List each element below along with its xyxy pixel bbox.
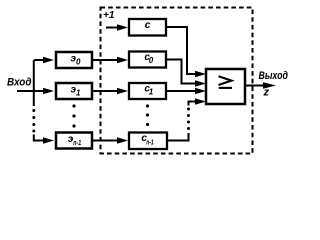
wire: input bus vertical (upper part) bbox=[33, 60, 35, 106]
wire: э1 output to c1 bbox=[92, 90, 118, 92]
wire: +1 into c bbox=[106, 27, 118, 29]
bus ellipsis dots bbox=[32, 109, 35, 133]
OR gate U1 (disjunctor) bbox=[206, 69, 245, 104]
delay element э1 bbox=[56, 83, 92, 99]
arrowhead into c0 bbox=[117, 57, 128, 63]
svg-text:0: 0 bbox=[76, 58, 81, 67]
ellipsis between э1 and эn-1 bbox=[72, 104, 75, 127]
svg-text:c: c bbox=[145, 20, 151, 31]
arrowhead output bbox=[263, 82, 276, 89]
svg-text:0: 0 bbox=[149, 56, 154, 65]
wire: riser top into gate input 4 bbox=[189, 102, 197, 106]
svg-text:+1: +1 bbox=[103, 10, 115, 21]
wire: input bus vertical (lower part) with corner to эn-1 bbox=[34, 135, 44, 141]
svg-text:1: 1 bbox=[149, 88, 154, 97]
arrowhead into cn-1 bbox=[117, 137, 128, 143]
wire ellipsis dots on cn-1 riser bbox=[187, 108, 190, 131]
wire: c1 output to OR gate input 3 bbox=[166, 90, 196, 92]
cell c bbox=[129, 19, 166, 36]
wire: c0 output to OR gate input 2 bbox=[166, 60, 196, 84]
arrowhead into эn-1 bbox=[43, 137, 54, 143]
arrowhead gate input 2 bbox=[195, 80, 206, 86]
svg-text:n-1: n-1 bbox=[146, 137, 154, 146]
wire: эn-1 output to cn-1 bbox=[92, 140, 118, 142]
ellipsis between c1 and cn-1 bbox=[146, 104, 149, 126]
wire: gate output bbox=[245, 85, 264, 87]
wire: cn-1 output up to OR gate input 4 (solid parts) bbox=[167, 133, 189, 141]
cell c0 bbox=[129, 52, 166, 68]
cell cn-1 bbox=[129, 133, 167, 150]
wire: c output to OR gate input 1 bbox=[166, 27, 196, 74]
svg-text:n-1: n-1 bbox=[73, 138, 81, 147]
arrowhead into c1 bbox=[117, 88, 128, 94]
arrowhead into э1 bbox=[43, 88, 54, 94]
arrowhead gate input 3 bbox=[195, 88, 206, 94]
wire: input horizontal into э1 bbox=[17, 90, 44, 92]
svg-text:Вход: Вход bbox=[7, 77, 32, 89]
arrowhead into c bbox=[117, 24, 128, 30]
wire: bus branch to э0 bbox=[34, 59, 44, 61]
svg-text:z: z bbox=[263, 87, 270, 99]
cell c1 bbox=[129, 83, 166, 99]
dashed enclosure (coder block) bbox=[101, 8, 253, 154]
arrowhead gate input 1 bbox=[195, 71, 206, 77]
delay element э0 bbox=[56, 52, 92, 68]
svg-text:1: 1 bbox=[76, 89, 81, 98]
arrowhead into э0 bbox=[43, 57, 54, 63]
delay element эn-1 bbox=[56, 133, 92, 149]
arrowhead gate input 4 bbox=[195, 98, 206, 104]
wire: э0 output to c0 bbox=[92, 59, 118, 61]
svg-text:Выход: Выход bbox=[259, 70, 289, 82]
